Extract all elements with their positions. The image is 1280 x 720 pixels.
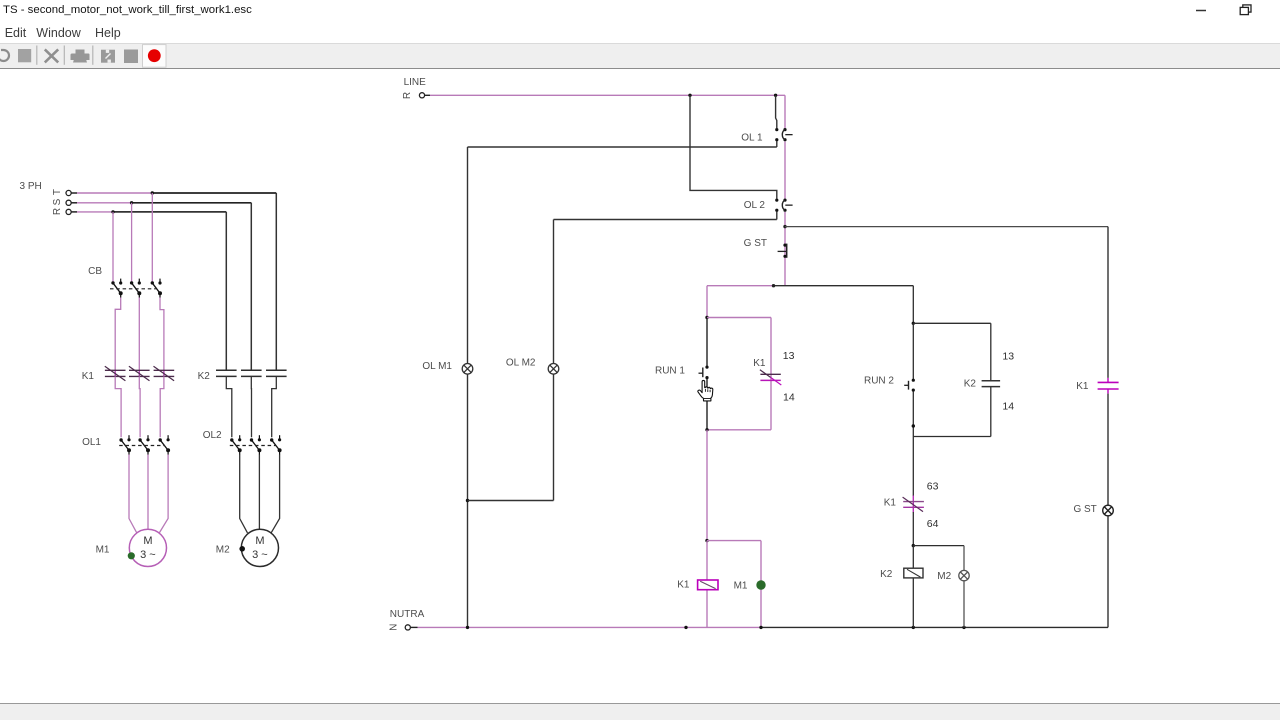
svg-text:K2: K2 — [964, 379, 977, 390]
svg-text:63: 63 — [927, 480, 939, 492]
svg-text:13: 13 — [783, 350, 795, 362]
wire: drops to CB — [113, 193, 152, 282]
terminal T — [66, 190, 71, 195]
motor M2 — [241, 529, 278, 566]
svg-text:3 ~: 3 ~ — [252, 549, 268, 561]
wire: phase T horizontal — [71, 192, 276, 194]
overload relay OL2 — [230, 435, 282, 455]
pushbutton RUN1 (NO) — [699, 318, 709, 429]
coil K2 — [904, 568, 923, 578]
svg-text:S: S — [52, 198, 63, 205]
svg-text:M2: M2 — [937, 571, 951, 582]
titlebar restore button — [1240, 5, 1251, 15]
parallel branch rectangle (K2 13-14) — [913, 323, 991, 436]
lamp M1 (on, green) — [756, 580, 765, 589]
wires: K2 to OL2 — [226, 376, 276, 437]
svg-text:OL M1: OL M1 — [422, 361, 452, 372]
contact K1 13-14 (closed) — [760, 370, 781, 385]
svg-text:K2: K2 — [198, 371, 211, 382]
status bar — [0, 703, 1280, 720]
svg-text:OL 2: OL 2 — [744, 200, 766, 211]
toolbar icon: patterned square — [101, 50, 115, 63]
wire: main rail (magenta) — [784, 95, 786, 285]
node NUTRA x=761 — [759, 626, 762, 629]
svg-text:K1: K1 — [753, 358, 766, 369]
wires: K1 to OL1 — [115, 376, 164, 437]
wire: NUTRA line — [410, 626, 1108, 628]
svg-text:M1: M1 — [734, 580, 748, 591]
svg-text:64: 64 — [927, 518, 939, 530]
lamp M2 — [959, 570, 969, 580]
lamp OL M2 — [548, 364, 559, 375]
terminal R — [66, 209, 71, 214]
svg-text:K2: K2 — [880, 569, 893, 580]
svg-text:T: T — [52, 189, 63, 195]
wire: right rail — [1107, 227, 1109, 628]
svg-text:3 PH: 3 PH — [20, 181, 42, 192]
svg-text:M1: M1 — [96, 545, 110, 556]
node at (773.5,285.7) — [772, 284, 775, 287]
wires: CB to K1 — [115, 298, 164, 371]
wire: M2 lamp branch — [963, 546, 965, 628]
svg-text:R: R — [402, 92, 413, 99]
node NUTRA x=964 — [962, 626, 965, 629]
toolbar — [0, 43, 1280, 69]
wire: ladder top line — [707, 285, 913, 287]
svg-text:K1: K1 — [677, 579, 690, 590]
node at (913.3,426) — [912, 424, 915, 427]
circuit breaker CB — [110, 279, 162, 298]
toolbar icon: gray square 2 — [124, 50, 138, 64]
wire: LINE horizontal — [425, 94, 785, 96]
M1 run indicator (green) — [128, 552, 135, 559]
node NUTRA x=913.3 — [912, 626, 915, 629]
svg-text:K1: K1 — [82, 371, 95, 382]
svg-text:R: R — [52, 208, 63, 215]
svg-text:OL2: OL2 — [203, 430, 222, 441]
svg-text:CB: CB — [88, 266, 102, 277]
svg-text:M: M — [143, 535, 152, 547]
toolbar icon: printer — [71, 50, 90, 63]
wires: OL2 to motor M2 — [240, 455, 280, 533]
svg-text:G ST: G ST — [744, 238, 767, 249]
contactor K2 main contacts — [216, 370, 287, 376]
svg-text:RUN 2: RUN 2 — [864, 376, 894, 387]
svg-text:LINE: LINE — [404, 77, 427, 88]
wire: phase R horizontal — [71, 211, 226, 213]
wire: K2 coil rung branch — [913, 546, 964, 628]
wire: to OL1 top — [776, 95, 777, 128]
toolbar icon: rotate (cut off) — [0, 50, 9, 61]
wire: phase S horizontal — [71, 202, 251, 204]
wires: OL1 to motor M1 — [129, 455, 168, 533]
lamp GST — [1103, 505, 1114, 516]
wire: left rung down to RUN1 — [706, 286, 708, 318]
coil K1 — [698, 580, 718, 590]
window title bar — [0, 0, 1280, 22]
svg-text:N: N — [388, 624, 399, 631]
node on LINE at x=690 — [688, 94, 691, 97]
svg-text:14: 14 — [1002, 401, 1014, 413]
wire: down to K1 63-64 — [912, 437, 914, 497]
svg-text:G ST: G ST — [1073, 504, 1096, 515]
toolbar icon: X — [45, 49, 58, 62]
node at (913.3,323.3) — [912, 322, 915, 325]
wire: OL1 lower branch to left rail — [468, 141, 777, 364]
wires: phase drops to K2 — [226, 193, 276, 370]
svg-text:M2: M2 — [216, 545, 230, 556]
overload relay OL1 — [119, 435, 170, 455]
node on LINE at x=775.6 — [774, 94, 777, 97]
toolbar icon: gray square 1 — [18, 49, 31, 62]
wire: OL2 lower branch to rail 2 — [554, 212, 777, 364]
wire: down to K2 coil junction — [912, 512, 914, 546]
wire: RUN2 rung top — [912, 286, 914, 324]
toolbar separator 1 — [36, 46, 38, 65]
menu bar — [0, 22, 1280, 43]
contact K1 63-64 (closed) — [903, 496, 924, 513]
svg-text:13: 13 — [1002, 351, 1014, 363]
node: phase T junction — [151, 191, 154, 194]
svg-text:K1: K1 — [1076, 381, 1089, 392]
contact K2 13-14 (open) — [982, 381, 1001, 387]
svg-text:14: 14 — [783, 392, 795, 404]
node at (707,540.6) — [705, 539, 708, 542]
wire: coil rung branch — [707, 541, 761, 628]
svg-text:NUTRA: NUTRA — [390, 609, 425, 620]
wire: below OL M1 to NUTRA — [467, 374, 469, 627]
svg-text:OL M2: OL M2 — [506, 358, 536, 369]
toolbar record button (active) — [143, 45, 167, 68]
mouse cursor (hand) — [698, 380, 713, 401]
node: rail to GST-lamp branch — [783, 225, 786, 228]
contactor K1 main contacts — [105, 366, 174, 381]
terminal LINE R — [419, 93, 424, 98]
node at (913.3,545.6) — [912, 544, 915, 547]
lamp OL M1 — [462, 364, 473, 375]
contact K1 21-22 (open) — [1098, 382, 1119, 389]
M2 indicator (dark) — [239, 546, 245, 552]
node: phase R junction — [111, 210, 114, 213]
pushbutton GST (NC) — [778, 244, 787, 258]
svg-text:3 ~: 3 ~ — [140, 549, 156, 561]
overload contact OL2 (NC) — [775, 199, 792, 212]
terminal S — [66, 200, 71, 205]
pushbutton RUN2 (NO) — [904, 323, 915, 436]
svg-text:K1: K1 — [884, 498, 897, 509]
wire: to OL2 top (via x=690) — [690, 95, 777, 198]
parallel branch rectangle (K1 13-14) — [707, 318, 771, 430]
toolbar separator 2 — [63, 46, 65, 65]
node at (707,429.8) — [705, 428, 708, 431]
wire: below OL M2 joins left rail — [468, 374, 554, 500]
overload contact OL1 (NC) — [775, 128, 792, 141]
svg-text:OL 1: OL 1 — [741, 133, 763, 144]
node NUTRA x=467.5 — [466, 626, 469, 629]
motor M1 — [129, 529, 166, 566]
svg-text:RUN 1: RUN 1 — [655, 365, 685, 376]
node at (467.5,500.5) — [466, 499, 469, 502]
toolbar separator 3 — [92, 46, 94, 65]
svg-text:OL1: OL1 — [82, 437, 101, 448]
node: phase S junction — [130, 201, 133, 204]
titlebar minimize button — [1196, 10, 1206, 12]
wire: branch to right rail — [785, 226, 1108, 228]
terminal NUTRA N — [405, 625, 410, 630]
node at (707,317.5) — [705, 316, 708, 319]
svg-text:M: M — [255, 535, 264, 547]
node NUTRA x=686 — [684, 626, 687, 629]
wire: down to coil junction — [706, 430, 708, 541]
